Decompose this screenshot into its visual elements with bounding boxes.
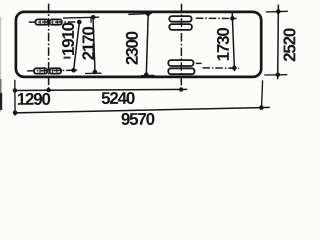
dot 1730 top — [230, 16, 235, 21]
scan shadow left edge mid — [0, 79, 2, 93]
right overall extension line — [262, 80, 263, 109]
front bottom tire rim ticks — [39, 69, 41, 73]
label 1290 — [18, 93, 50, 105]
front bottom tire left half — [34, 68, 47, 73]
dim line 1730 — [232, 13, 234, 72]
rear bottom dual tire outer — [168, 68, 194, 74]
dim line 9570 — [15, 107, 270, 113]
extension line 2300 bottom — [141, 74, 155, 76]
rear top dual tire inner — [169, 24, 192, 30]
label 1910 — [62, 23, 74, 55]
dot 2520 bottom — [276, 73, 281, 78]
dot rear axle on dim line — [179, 87, 183, 91]
rear bottom inner tire centerline dash — [196, 62, 202, 64]
front top wheel centerline — [29, 21, 82, 23]
front bottom wheel centerline — [27, 69, 79, 72]
vehicle body outline — [16, 12, 261, 77]
serif foot of digit 1 in label 1910 — [64, 57, 71, 59]
extension line 2520 bottom — [264, 74, 287, 76]
label 2300 — [126, 32, 138, 65]
front top tire right half — [50, 19, 62, 24]
extension line 2170 bottom — [85, 72, 101, 74]
dot 2300 bottom — [144, 73, 149, 78]
scan shadow left edge faint — [0, 17, 1, 112]
dim line 2520 — [277, 5, 280, 80]
front top tire left half — [35, 19, 48, 24]
front axle centerline — [48, 4, 50, 91]
label 9570 — [121, 113, 154, 125]
label 1730 — [217, 28, 229, 60]
dim line 2300 — [146, 14, 148, 76]
dot 9570 left — [13, 111, 18, 116]
rear top dual tire outer — [169, 16, 191, 22]
label 2170 — [82, 27, 94, 60]
front bottom tire right half — [49, 68, 61, 73]
extension line top front (2170 top) — [63, 16, 99, 19]
rear bottom dual tire inner — [168, 60, 193, 66]
dim line 1910 — [74, 22, 80, 70]
dot 1910 bottom — [71, 68, 76, 73]
dot 2170 top — [91, 15, 96, 20]
rear axle centerline — [180, 4, 182, 90]
label 5240 — [102, 92, 135, 104]
dim line 1290 / 5240 — [14, 89, 187, 90]
dot 1910 top — [77, 20, 82, 25]
dot 2170 bottom — [93, 70, 98, 75]
dot 1290 left — [13, 88, 17, 92]
rear bottom wheel centerline — [202, 67, 238, 70]
front top tire rim ticks — [39, 20, 41, 24]
dot 2520 top — [276, 9, 281, 14]
dot 1730 bottom — [232, 66, 237, 71]
label 2520 — [283, 28, 295, 61]
rear top wheel centerline — [196, 17, 237, 19]
dot 2300 top — [146, 11, 151, 16]
extension line 2520 top — [266, 10, 288, 13]
dim line 2170 — [93, 17, 95, 72]
dot 9570 right — [259, 105, 264, 110]
scan shadow left edge dark — [0, 93, 2, 110]
small tick artifact near 2170 top — [90, 17, 92, 23]
dot front axle on dim line — [46, 88, 50, 92]
left overall extension line — [14, 80, 16, 116]
extension line 2300 top — [128, 13, 151, 14]
